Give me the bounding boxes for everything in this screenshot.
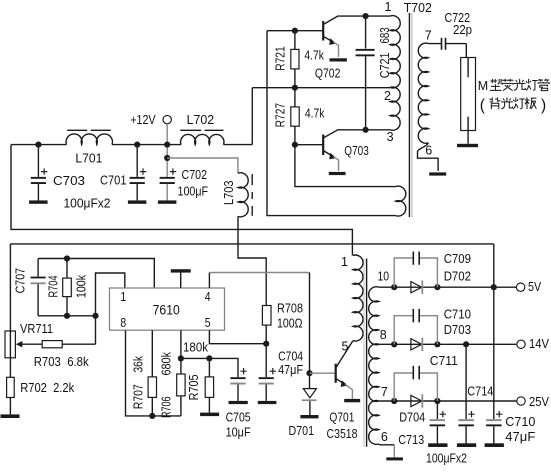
wire IC pin6 to 180k line: [180, 330, 182, 358]
ground R705: [200, 413, 219, 417]
resistor R705: [208, 358, 210, 377]
svg-text:7: 7: [425, 28, 432, 42]
svg-text:R707: R707: [131, 384, 146, 409]
diode D702: [411, 282, 422, 293]
op-amp U1 7610: [110, 288, 225, 330]
node Q703 base junction: [292, 142, 298, 148]
svg-text:R702 2.2k: R702 2.2k: [20, 380, 74, 395]
wire L703 to R708: [238, 216, 266, 305]
wire left vertical and bottom return to T701 pin1: [11, 145, 352, 256]
diode D703: [411, 339, 422, 350]
svg-text:680k: 680k: [158, 352, 173, 376]
capacitor C710 47uF output: [486, 419, 502, 421]
svg-text:D703: D703: [444, 322, 471, 337]
node 25V output: [517, 397, 525, 405]
svg-text:100k: 100k: [74, 275, 89, 298]
resistor R707: [151, 330, 153, 377]
svg-text:C710: C710: [505, 414, 535, 429]
svg-text:683: 683: [377, 27, 392, 43]
transformer T701 primary: [353, 255, 363, 341]
transformer T702 feedback winding: [396, 186, 406, 216]
capacitor C722: [428, 43, 466, 45]
transformer T702 primary: [390, 16, 400, 88]
svg-text:8: 8: [120, 315, 126, 330]
svg-text:R708: R708: [277, 300, 303, 315]
node 5V output: [516, 283, 524, 291]
svg-text:C713: C713: [398, 432, 424, 447]
svg-text:100μF: 100μF: [178, 184, 209, 199]
svg-text:22p: 22p: [453, 22, 472, 37]
transformer T702 secondary: [418, 43, 428, 143]
svg-text:Q701: Q701: [329, 410, 354, 425]
resistor R706: [180, 358, 182, 374]
svg-text:25V: 25V: [529, 394, 549, 409]
node +12V terminal: [163, 115, 171, 123]
svg-text:R703 6.8k: R703 6.8k: [34, 354, 89, 369]
ground above IC pin3: [171, 269, 191, 272]
svg-text:C707: C707: [13, 268, 28, 294]
wire 5V row: [379, 286, 516, 288]
resistor R708: [262, 306, 271, 326]
capacitor C704: [265, 344, 267, 378]
svg-text:L703: L703: [221, 180, 236, 205]
wire 5V feedback top line: [10, 243, 493, 245]
resistor R704: [64, 255, 70, 261]
capacitor C703: [35, 142, 41, 148]
capacitor C702: [160, 177, 175, 179]
svg-text:Q703: Q703: [344, 143, 369, 158]
svg-text:R706: R706: [158, 397, 173, 419]
svg-text:5: 5: [342, 339, 349, 353]
svg-text:47μF: 47μF: [505, 429, 535, 444]
capacitor C701: [134, 142, 140, 148]
svg-text:R705: R705: [186, 374, 201, 400]
lamp M-type backlight: [465, 44, 467, 58]
wire 5V rail vertical: [493, 244, 495, 419]
capacitor C714: [465, 344, 467, 419]
wire left divider vertical: [9, 244, 11, 415]
wire Q702 base feedback vertical: [267, 31, 396, 216]
svg-text:2: 2: [384, 89, 391, 103]
svg-text:C714: C714: [467, 383, 493, 398]
svg-text:8: 8: [380, 328, 387, 342]
svg-text:1: 1: [341, 255, 348, 269]
svg-text:D701: D701: [289, 423, 315, 438]
svg-text:C711: C711: [430, 353, 458, 368]
diode D704: [411, 395, 422, 406]
ground left divider: [1, 414, 20, 418]
svg-text:C705: C705: [226, 410, 251, 425]
transformer T701 secondary: [369, 287, 379, 345]
svg-text:R727: R727: [273, 103, 288, 128]
wire rail riser to center tap: [251, 88, 253, 145]
wire 180k line: [181, 358, 238, 377]
svg-text:1: 1: [385, 0, 392, 14]
svg-text:100Ω: 100Ω: [277, 316, 303, 331]
wire +12V rail: [11, 144, 252, 146]
svg-text:C721: C721: [377, 52, 392, 78]
wire C702 node to L703 (gray): [167, 158, 238, 173]
resistor R703: [42, 341, 62, 348]
svg-text:D702: D702: [444, 269, 471, 284]
wire T702 pin1 tap: [366, 15, 391, 17]
svg-text:7610: 7610: [153, 303, 180, 318]
svg-text:47μF: 47μF: [278, 362, 303, 377]
wire 14V row: [379, 343, 517, 345]
svg-text:C710: C710: [444, 307, 471, 322]
wire 25V row: [379, 400, 517, 402]
svg-text:10μF: 10μF: [226, 424, 251, 439]
transformer T701 core: [366, 259, 368, 447]
wire +12V terminal to rail and C702 (gray): [166, 124, 168, 177]
svg-text:VR711: VR711: [20, 321, 53, 336]
svg-text:180k: 180k: [183, 339, 208, 354]
svg-text:14V: 14V: [529, 336, 549, 351]
svg-text:T702: T702: [404, 0, 432, 15]
inductor L702: [181, 134, 224, 144]
capacitor C710 bypass: [394, 316, 437, 345]
resistor R721: [294, 31, 296, 50]
svg-text:4.7k: 4.7k: [304, 48, 324, 63]
capacitor C709: [394, 258, 437, 287]
svg-text:R721: R721: [273, 46, 288, 71]
svg-text:4: 4: [205, 289, 211, 304]
svg-text:10: 10: [378, 270, 390, 284]
svg-text:5: 5: [205, 315, 211, 330]
transistor Q701: [310, 372, 336, 374]
node center tap junction: [292, 85, 298, 91]
capacitor C713 output filter: [436, 401, 438, 419]
node Q702 base junction: [292, 28, 298, 34]
wire Q703 base feedback lead: [295, 145, 396, 187]
svg-text:M: M: [478, 79, 488, 93]
inductor L703: [238, 173, 248, 217]
svg-text:3: 3: [387, 130, 394, 144]
svg-text:5V: 5V: [528, 279, 541, 294]
svg-text:R704: R704: [46, 276, 61, 298]
svg-text:6: 6: [381, 430, 388, 444]
wire IC pin5 to R708 node: [209, 330, 266, 344]
svg-text:C703: C703: [53, 173, 85, 188]
capacitor C705: [230, 377, 245, 379]
svg-text:L702: L702: [187, 112, 215, 127]
svg-text:Q702: Q702: [315, 65, 341, 80]
svg-text:1: 1: [120, 289, 126, 304]
svg-text:D704: D704: [399, 409, 425, 424]
svg-text:(: (: [480, 97, 486, 114]
svg-text:L701: L701: [75, 150, 102, 165]
capacitor C711 bypass: [394, 373, 437, 401]
inductor L701: [66, 134, 112, 145]
wire IC pin8 down: [126, 330, 182, 416]
wire T702 pin3 tap: [366, 129, 391, 131]
transformer T702 core: [408, 13, 410, 217]
svg-text:+12V: +12V: [130, 112, 156, 127]
svg-text:7: 7: [381, 385, 388, 399]
resistor R702: [7, 377, 15, 397]
transistor Q702: [267, 30, 323, 32]
svg-text:C701: C701: [100, 173, 127, 188]
transistor Q703: [295, 144, 323, 146]
svg-text:4.7k: 4.7k: [305, 105, 325, 120]
capacitor C721: [363, 13, 369, 19]
capacitor C707: [37, 259, 39, 277]
wire IC pin4 to Q701 base node: [208, 273, 210, 289]
wire T701 pin6 to ground: [379, 443, 395, 446]
svg-text:): ): [541, 97, 546, 114]
resistor R727: [294, 88, 296, 107]
wire top loop to IC pin2: [38, 259, 154, 289]
svg-text:C709: C709: [444, 251, 471, 266]
svg-text:6: 6: [425, 143, 432, 157]
svg-text:C3518: C3518: [327, 426, 358, 441]
svg-text:36k: 36k: [131, 356, 146, 373]
potentiometer VR711: [5, 331, 15, 358]
node 14V output: [517, 340, 525, 348]
wire bottom loop: [38, 315, 95, 317]
wire center tap line to T702 pin2: [252, 87, 390, 89]
svg-text:100μFx2: 100μFx2: [426, 450, 467, 465]
svg-text:100μFx2: 100μFx2: [64, 196, 111, 211]
wire R703 to IC pin1: [96, 273, 125, 344]
svg-text:C702: C702: [182, 167, 208, 182]
node pin5 R708 C704 junction: [263, 341, 269, 347]
diode D701: [306, 370, 312, 376]
